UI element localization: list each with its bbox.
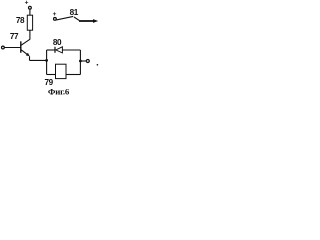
- wire diode top right segment: [62, 49, 80, 51]
- transistor VT77 collector lead: [21, 39, 30, 45]
- svg-text:78: 78: [16, 16, 25, 25]
- node B junction dot: [79, 60, 82, 63]
- wire resistor to collector: [29, 30, 31, 39]
- wire right loop vertical: [79, 50, 81, 75]
- wire emitter to node A: [30, 59, 47, 61]
- diode VD80 triangle: [56, 47, 63, 53]
- wire terminal to resistor: [29, 9, 31, 15]
- wire left loop vertical: [46, 50, 48, 75]
- resistor R78: [27, 15, 32, 30]
- wire left lead to relay: [47, 74, 56, 76]
- diode VD80 cathode bar: [54, 47, 56, 53]
- actuation arrowhead: [93, 19, 98, 23]
- svg-text:Фиг.6: Фиг.6: [48, 86, 70, 96]
- node A junction dot: [45, 59, 48, 62]
- svg-text:80: 80: [53, 38, 62, 47]
- switch terminal circle: [54, 18, 57, 21]
- base wire: [4, 47, 20, 49]
- svg-text:+: +: [25, 0, 29, 7]
- wire diode top left segment: [47, 49, 55, 51]
- transistor VT77 base bar: [20, 41, 22, 53]
- terminal circle top-left: [29, 6, 32, 9]
- switch S81 contact segment: [74, 17, 79, 20]
- svg-text:77: 77: [10, 32, 19, 41]
- base terminal circle: [2, 46, 5, 49]
- wire right lead from relay: [66, 74, 80, 76]
- relay coil K79 box: [56, 64, 67, 78]
- actuation arrow line: [79, 20, 94, 22]
- wire node B to output terminal: [80, 60, 86, 62]
- svg-text:81: 81: [70, 8, 79, 17]
- output terminal circle: [86, 60, 89, 63]
- speck dot right edge: [97, 64, 99, 66]
- wire emitter down: [29, 56, 31, 60]
- switch S81 blade: [56, 16, 73, 20]
- transistor VT77 emitter lead with arrow: [21, 50, 28, 55]
